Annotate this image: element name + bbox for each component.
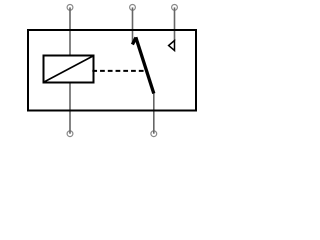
coil diagonal [44, 56, 93, 82]
armature lever [136, 37, 154, 93]
NO contact triangle [169, 41, 175, 51]
pin 3 terminal circle (top right) [172, 5, 178, 11]
wire: coil bottom lead [69, 83, 71, 134]
pin 4 terminal circle (bottom left) [67, 131, 73, 137]
wire: NO contact lead from top pin [174, 7, 176, 41]
pin 1 terminal circle (top left) [67, 5, 73, 11]
wire: armature pivot lead to bottom pin [153, 93, 155, 134]
dashed actuation link [92, 70, 147, 72]
pin 5 terminal circle (bottom right) [151, 131, 157, 137]
wire: common (NC) lead from top pin [132, 7, 134, 44]
relay coil K1 [44, 56, 94, 83]
wire: coil top lead [69, 7, 71, 55]
armature barb [132, 38, 136, 45]
relay body outline [28, 30, 196, 111]
pin 2 terminal circle (top middle) [130, 5, 136, 11]
